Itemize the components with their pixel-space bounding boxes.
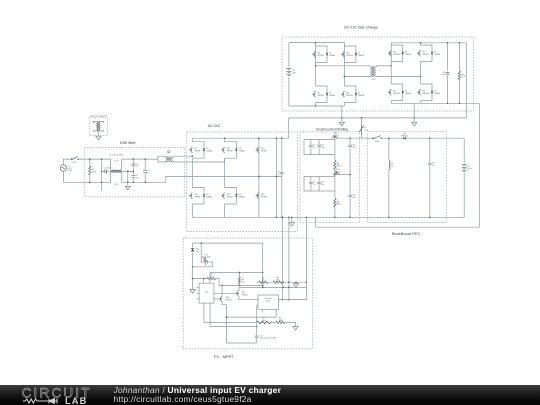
wire drop from AC-DC bus B bbox=[288, 217, 290, 299]
wire secondary top lead bbox=[377, 65, 392, 67]
svg-text:L1 TF: L1 TF bbox=[114, 161, 118, 163]
wire inrush top bus bbox=[335, 137, 362, 139]
cell rect M3/D3 bbox=[344, 46, 356, 63]
capacitor C9 leg bbox=[310, 177, 312, 192]
transistor M6 bbox=[388, 89, 391, 95]
diode D13 bbox=[403, 137, 405, 140]
resistor R4 bbox=[334, 198, 336, 207]
cell rect M10/D10 bbox=[192, 188, 204, 205]
capacitor C12 bbox=[348, 195, 352, 197]
resistor R1 load bbox=[458, 71, 460, 80]
cell rect M12/D12 bbox=[225, 188, 237, 205]
resistor R3 bbox=[334, 160, 336, 169]
ground isolated supply bbox=[96, 136, 101, 140]
capacitor C3 bbox=[131, 164, 135, 166]
ground divider upper bbox=[295, 282, 297, 283]
wire CT splitter bbox=[158, 156, 165, 162]
diode D8 bbox=[431, 91, 433, 93]
diode D5 bbox=[402, 52, 404, 54]
current transformer CT1 bbox=[165, 151, 173, 162]
resistor R5 bbox=[207, 277, 216, 279]
svg-text:AC-DC: AC-DC bbox=[208, 123, 221, 128]
node leg2 mid bbox=[344, 76, 346, 78]
capacitor C10 bbox=[317, 182, 321, 184]
svg-text:1N4448: 1N4448 bbox=[434, 54, 440, 56]
wire leg M1 bbox=[315, 43, 317, 106]
transistor M10 bbox=[189, 193, 192, 199]
wire leg M9 bbox=[191, 138, 193, 217]
block outline PFC bbox=[368, 132, 447, 223]
node right leg1 mid bbox=[390, 65, 392, 67]
block outline PV-MPPT bbox=[183, 238, 312, 349]
footer bar bbox=[0, 385, 540, 405]
wire primary top lead bbox=[316, 65, 370, 68]
IC1 top pin 2 bbox=[209, 273, 211, 284]
transistor M7 bbox=[417, 50, 420, 56]
svg-text:10k: 10k bbox=[242, 281, 245, 283]
inductor L3 leg bbox=[388, 138, 390, 217]
diode D2 bbox=[326, 93, 328, 95]
wire IC pin down 2 bbox=[210, 303, 257, 326]
wire mid bus bbox=[219, 284, 263, 286]
svg-text:10k: 10k bbox=[210, 276, 213, 278]
wire top rail right bridge bbox=[391, 42, 466, 44]
ground AC-DC rail bbox=[291, 217, 293, 222]
diode D11 bbox=[235, 149, 237, 151]
net arrow A bbox=[339, 122, 344, 126]
cell rect M6/D6 bbox=[391, 84, 403, 101]
wire y317 bbox=[226, 316, 276, 318]
wire leg M13 bbox=[258, 138, 260, 217]
wire DC link horizontal bbox=[289, 103, 467, 118]
wire M17 channel bbox=[239, 287, 258, 299]
wire secondary bottom lead bbox=[377, 75, 421, 78]
wire IC pin down 1 bbox=[204, 303, 296, 327]
diode D7 bbox=[431, 52, 433, 54]
block outline inrush bbox=[300, 132, 360, 223]
svg-text:1N4448: 1N4448 bbox=[405, 93, 411, 95]
wire CT bottom out to leg2 bbox=[174, 158, 225, 162]
wire DC-DC output drop bbox=[315, 103, 479, 227]
svg-text:IPP60R: IPP60R bbox=[227, 196, 234, 198]
svg-text:100k: 100k bbox=[279, 320, 283, 322]
wire top rail left bridge bbox=[289, 42, 345, 44]
svg-text:IRF540: IRF540 bbox=[242, 294, 248, 296]
svg-text:48 Ω: 48 Ω bbox=[337, 166, 341, 168]
common mode choke L1/L2 bbox=[111, 159, 122, 182]
wire DC link down to AC-DC rail bbox=[288, 118, 290, 138]
wire earth tap bbox=[127, 171, 129, 186]
node cap bank tap bbox=[349, 137, 351, 139]
svg-text:1m: 1m bbox=[391, 166, 394, 168]
node leg1 mid bbox=[315, 65, 317, 67]
ground divider lower bbox=[293, 327, 298, 331]
transistor M12 bbox=[221, 193, 224, 199]
wire PV main vertical bbox=[192, 243, 194, 289]
svg-text:PV - MPPT: PV - MPPT bbox=[214, 354, 235, 359]
resistor R3 leg bbox=[334, 155, 336, 177]
transistor M1 bbox=[312, 51, 315, 57]
wire mid rail bbox=[102, 170, 134, 172]
cell rect M11/D11 bbox=[225, 142, 237, 159]
battery B1 bbox=[286, 68, 291, 75]
capacitor C1 output bbox=[446, 73, 450, 75]
wire AC-DC top rail bbox=[192, 137, 288, 139]
transistor M17 bbox=[236, 290, 239, 296]
svg-text:1N4448: 1N4448 bbox=[358, 95, 364, 97]
ground PV bbox=[190, 290, 195, 294]
capacitor C2 bbox=[105, 170, 107, 174]
node top rail leg M7 bbox=[420, 42, 422, 44]
diode D10 bbox=[203, 195, 205, 197]
svg-text:1u: 1u bbox=[313, 184, 315, 186]
transistor M15 bypass bbox=[332, 135, 338, 138]
resistor R4 leg bbox=[334, 191, 336, 217]
node phase A bbox=[191, 155, 193, 157]
svg-text:1N4448: 1N4448 bbox=[358, 55, 364, 57]
battery B2 leg bbox=[463, 138, 465, 217]
transistor M2 bbox=[312, 91, 315, 97]
transformer T2 bbox=[93, 121, 103, 131]
svg-text:48 Ω: 48 Ω bbox=[462, 76, 466, 78]
wire drop right with branch bbox=[279, 217, 307, 299]
capacitor C10 leg bbox=[318, 177, 320, 192]
svg-text:IPP60R: IPP60R bbox=[261, 151, 268, 153]
battery B1 lead wire bbox=[288, 43, 290, 106]
node bottom rail leg1 bbox=[315, 105, 317, 107]
wire PV loop bbox=[193, 243, 213, 267]
svg-text:2n2: 2n2 bbox=[136, 166, 139, 168]
driver bottom pins bbox=[262, 309, 276, 317]
wire choke to splitter bbox=[122, 158, 158, 160]
switch SW1 bbox=[72, 156, 77, 159]
diode D1 bbox=[326, 53, 328, 55]
transformer T1 bbox=[369, 66, 376, 77]
wire leg M11 bbox=[224, 138, 226, 217]
svg-text:MUR460: MUR460 bbox=[401, 136, 408, 138]
wire transformer ground lead bbox=[97, 132, 99, 137]
node top rail leg M11 bbox=[224, 137, 226, 139]
wire top bus corner down bbox=[262, 243, 264, 287]
wire switch to diode bbox=[381, 137, 403, 139]
cell rect M1/D1 bbox=[316, 46, 328, 63]
svg-text:1N4448: 1N4448 bbox=[206, 151, 212, 153]
cell rect M8/D8 bbox=[421, 84, 433, 101]
wire divider upper bbox=[256, 281, 306, 283]
svg-text:10k: 10k bbox=[262, 320, 265, 322]
wire drop from AC-DC bus A bbox=[282, 217, 284, 299]
wire bus upper link bbox=[210, 272, 263, 274]
block outline DC-DC bbox=[282, 37, 473, 111]
svg-text:100n: 100n bbox=[107, 168, 111, 170]
svg-text:48 V: 48 V bbox=[293, 73, 297, 75]
svg-text:470k: 470k bbox=[92, 171, 96, 173]
wire neutral step up bbox=[166, 177, 282, 183]
node res top bbox=[459, 42, 461, 44]
svg-text:10k: 10k bbox=[262, 280, 265, 282]
node top rail leg1 bbox=[315, 42, 317, 44]
CircuitLab logo bbox=[20, 386, 94, 405]
capacitor C13 bbox=[428, 163, 432, 165]
svg-text:10u: 10u bbox=[321, 147, 324, 149]
svg-text:1N4448: 1N4448 bbox=[206, 196, 212, 198]
svg-text:IPP60R: IPP60R bbox=[194, 151, 201, 153]
wire left bridge mid tap down bbox=[341, 106, 343, 122]
capacitor C6 bus bbox=[280, 172, 284, 174]
svg-text:5V1: 5V1 bbox=[196, 251, 199, 253]
capacitor C11 bbox=[348, 145, 352, 147]
svg-text:1u: 1u bbox=[313, 147, 315, 149]
wire leg M3 bbox=[343, 43, 345, 106]
driver left pin bbox=[257, 304, 258, 306]
wire primary bottom lead bbox=[344, 75, 369, 78]
capacitor bank right leg bbox=[349, 138, 351, 217]
svg-text:IRF540: IRF540 bbox=[333, 135, 339, 137]
transistor M11 bbox=[221, 147, 224, 153]
svg-text:IC1: IC1 bbox=[205, 291, 209, 293]
wire AC-DC bottom rail bbox=[192, 216, 464, 218]
wire source top to switch bbox=[63, 159, 71, 165]
svg-text:1N4448: 1N4448 bbox=[329, 95, 335, 97]
wire leg M7 bbox=[420, 43, 422, 104]
capacitor C7 bbox=[309, 145, 313, 147]
wire output res leg bbox=[458, 43, 460, 104]
resistor R2 leg bbox=[89, 159, 91, 182]
capacitor C8 bbox=[317, 145, 321, 147]
wire MPPT top bus bbox=[193, 242, 263, 244]
block outline isolated supply bbox=[89, 118, 107, 136]
cell rect M4/D4 bbox=[344, 86, 356, 103]
Y cap leg bbox=[132, 159, 134, 182]
wire leg M5 bbox=[390, 43, 392, 104]
transistor M16 bypass bbox=[333, 171, 339, 174]
diode D3 bbox=[355, 53, 357, 55]
svg-text:IRF3205: IRF3205 bbox=[423, 93, 430, 95]
diode D9 bbox=[203, 149, 205, 151]
capacitor C4 bbox=[131, 176, 135, 178]
wire bottom rail left bridge bbox=[289, 105, 345, 107]
svg-text:TLV Gate: TLV Gate bbox=[265, 297, 272, 300]
svg-text:IRF3205: IRF3205 bbox=[393, 93, 400, 95]
svg-text:IPP60R: IPP60R bbox=[194, 196, 201, 198]
block outline EMI filter bbox=[84, 148, 184, 197]
svg-text:LAB: LAB bbox=[65, 396, 87, 405]
capacitor C8 leg bbox=[318, 139, 320, 154]
diode D14 shunt bbox=[191, 248, 194, 251]
svg-text:IRF540: IRF540 bbox=[334, 171, 340, 173]
cell rect M2/D2 bbox=[316, 86, 328, 103]
wire diode to battery node bbox=[406, 137, 465, 139]
svg-text:10u: 10u bbox=[352, 147, 355, 149]
svg-text:48 Ω: 48 Ω bbox=[337, 204, 341, 206]
svg-text:IRF3205: IRF3205 bbox=[347, 55, 354, 57]
svg-text:IPP60R: IPP60R bbox=[227, 151, 234, 153]
svg-text:Low Pass filter: Low Pass filter bbox=[110, 153, 124, 156]
capacitor C7 leg bbox=[310, 139, 312, 154]
block outline AC-DC bbox=[186, 132, 297, 232]
svg-text:1u: 1u bbox=[147, 172, 149, 174]
svg-text:10u: 10u bbox=[352, 197, 355, 199]
wire switch feed bbox=[362, 137, 373, 139]
switch SW2 bbox=[374, 136, 381, 139]
svg-text:100k: 100k bbox=[276, 280, 280, 282]
svg-text:EMI filter: EMI filter bbox=[120, 140, 136, 145]
cell rect cap bank 1 bbox=[304, 138, 335, 154]
svg-text:100u: 100u bbox=[441, 74, 445, 76]
svg-text:isolated DC supply 12V: isolated DC supply 12V bbox=[90, 115, 108, 118]
svg-text:50 Hz: 50 Hz bbox=[68, 170, 73, 172]
resistor R9 bbox=[256, 321, 270, 324]
wire source bottom rail bbox=[63, 171, 110, 182]
ground EMI earth bbox=[125, 186, 130, 190]
solar cell PV1 bbox=[203, 257, 208, 265]
IC1 top pin 1 bbox=[203, 279, 205, 284]
svg-text:C2: C2 bbox=[104, 168, 106, 170]
node top rail leg M13 bbox=[258, 137, 260, 139]
node right leg2 mid bbox=[420, 76, 422, 78]
cell rect M9/D9 bbox=[192, 142, 204, 159]
fuse F1 bbox=[359, 124, 363, 134]
svg-text:1u: 1u bbox=[432, 165, 434, 167]
wire bottom rail right bridge bbox=[391, 102, 479, 104]
node arrow crossing A bbox=[341, 117, 343, 119]
svg-text:2N7002: 2N7002 bbox=[226, 300, 232, 302]
svg-text:1N4448: 1N4448 bbox=[239, 151, 245, 153]
X cap leg bbox=[144, 159, 146, 182]
node cap bottom bbox=[447, 102, 449, 104]
cell rect cap bank 2 bbox=[304, 177, 335, 192]
svg-text:1N4448: 1N4448 bbox=[329, 55, 335, 57]
net arrow B bbox=[412, 122, 417, 126]
svg-text:DC-DC fast charge: DC-DC fast charge bbox=[344, 25, 379, 30]
IC1 pin stubs left bbox=[197, 288, 200, 299]
transistor M4 bbox=[341, 91, 344, 97]
capacitor C13 leg bbox=[429, 138, 431, 217]
svg-text:IRF3205: IRF3205 bbox=[393, 54, 400, 56]
svg-text:T1 4:8: T1 4:8 bbox=[371, 79, 376, 81]
wire right bridge tap down bbox=[413, 103, 415, 122]
svg-text:SW2: SW2 bbox=[375, 141, 379, 143]
resistor R10 bbox=[276, 321, 285, 324]
cell rect M5/D5 bbox=[391, 45, 403, 62]
diode D4 bbox=[355, 93, 357, 95]
svg-text:400 V: 400 V bbox=[467, 169, 472, 171]
transistor M3 bbox=[341, 51, 344, 57]
svg-text:SW1: SW1 bbox=[73, 162, 77, 164]
transistor M5 bbox=[388, 50, 391, 56]
svg-text:C14: C14 bbox=[260, 335, 263, 337]
wire line to choke bbox=[78, 158, 110, 160]
input capacitor leg bbox=[256, 305, 258, 343]
svg-text:IRF3205: IRF3205 bbox=[318, 55, 325, 57]
svg-text:BuckBoost PFC: BuckBoost PFC bbox=[392, 231, 420, 236]
node cap top bbox=[447, 42, 449, 44]
transistor M14 bbox=[256, 193, 259, 199]
voltage source V1 bbox=[60, 165, 66, 171]
node arrow crossing B bbox=[413, 117, 415, 119]
svg-text:IRF3205: IRF3205 bbox=[318, 95, 325, 97]
gate driver box bbox=[258, 295, 279, 309]
wire IC1 gate drive 1 bbox=[214, 292, 236, 294]
node res bottom bbox=[459, 102, 461, 104]
capacitor C5 bbox=[143, 171, 147, 173]
resistor R2 bbox=[89, 166, 91, 175]
node mid line leg M13 bbox=[258, 176, 260, 178]
wire DC bus cap leg bbox=[281, 138, 283, 217]
svg-text:2n2: 2n2 bbox=[136, 177, 139, 179]
cell rect M7/D7 bbox=[421, 45, 433, 62]
svg-text:CT1: CT1 bbox=[167, 158, 170, 160]
wire drain bus bbox=[239, 286, 307, 288]
capacitor C14 input bbox=[255, 336, 259, 338]
resistor R6 bbox=[238, 277, 240, 284]
wire M18 channel bbox=[222, 285, 257, 343]
capacitor C9 bbox=[309, 182, 313, 184]
wire sense divider top bbox=[193, 279, 219, 286]
fuse F1 leg bbox=[361, 118, 363, 138]
wire CT top out to leg1 bbox=[174, 155, 193, 157]
diode D12 bbox=[235, 195, 237, 197]
battery B2 bbox=[462, 164, 467, 171]
svg-text:IPP60R: IPP60R bbox=[261, 196, 268, 198]
inductor L3 bbox=[389, 160, 390, 169]
svg-text:IRF3205: IRF3205 bbox=[347, 95, 354, 97]
svg-text:L2 TF: L2 TF bbox=[114, 184, 118, 186]
resistor R7 bbox=[258, 281, 267, 284]
svg-text:Driver: Driver bbox=[266, 300, 271, 302]
svg-text:1N4448: 1N4448 bbox=[405, 54, 411, 56]
transistor M8 bbox=[417, 89, 420, 95]
resistor R8 bbox=[273, 281, 282, 284]
svg-text:IRF3205: IRF3205 bbox=[423, 54, 430, 56]
wire IC1 gate drive 2 bbox=[214, 298, 219, 300]
svg-text:1u: 1u bbox=[278, 174, 280, 176]
resistor R6 leg bbox=[238, 273, 240, 286]
wire right rail end bbox=[465, 43, 467, 104]
IC1 box bbox=[199, 283, 214, 303]
wire output cap leg bbox=[447, 43, 449, 104]
svg-text:1N4448: 1N4448 bbox=[434, 93, 440, 95]
svg-text:Inrush/current limiting: Inrush/current limiting bbox=[316, 127, 349, 131]
svg-text:1N4448: 1N4448 bbox=[239, 196, 245, 198]
transistor M18 bbox=[219, 296, 222, 302]
transistor M13 bbox=[256, 147, 259, 153]
wire DC bus leg A bbox=[275, 138, 277, 217]
wire mid leg bbox=[101, 159, 103, 191]
transistor M9 bbox=[189, 147, 192, 153]
wire choke to neutral step bbox=[122, 181, 166, 183]
wire cell2 link bbox=[335, 174, 350, 176]
diode D6 bbox=[402, 91, 404, 93]
svg-text:10u: 10u bbox=[321, 184, 324, 186]
